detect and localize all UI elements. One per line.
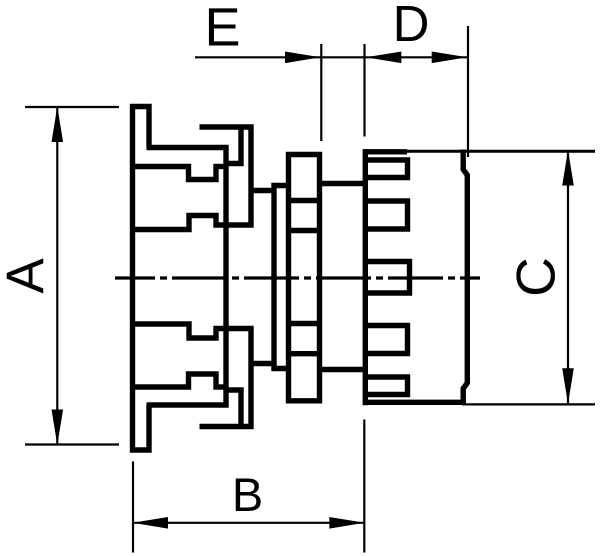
step upper S9 bbox=[214, 222, 254, 227]
tooth lower S14m bbox=[130, 384, 191, 389]
step lower S9m bbox=[214, 326, 254, 331]
dim A line bbox=[56, 107, 58, 445]
tooth upper S18 bbox=[214, 164, 229, 169]
dim C ext bottom bbox=[462, 403, 595, 405]
rib line 2 bbox=[289, 228, 320, 233]
tube right edge stepped outline bbox=[463, 150, 467, 405]
arrow A up bbox=[52, 107, 64, 143]
arrow D right bbox=[432, 52, 468, 64]
dim E ext bbox=[320, 44, 322, 141]
step upper S11 bbox=[187, 213, 219, 218]
slot2 top bbox=[365, 198, 410, 203]
rib left edge V2 bbox=[286, 152, 291, 403]
dim B ext right bbox=[363, 420, 365, 553]
slot1 top bbox=[365, 157, 410, 162]
center slot right bbox=[407, 259, 412, 296]
clamp shelf lower S3m bbox=[147, 402, 229, 407]
dim E line bbox=[195, 56, 321, 58]
tooth lower S17m bbox=[213, 372, 218, 390]
latch hook bottom S7m bbox=[200, 424, 254, 429]
slot1m bottom bbox=[365, 392, 410, 397]
step lower S10m bbox=[213, 326, 218, 341]
slot2 right bbox=[405, 199, 410, 232]
middle link lower R2m bbox=[272, 366, 292, 371]
svg-text:C: C bbox=[505, 257, 567, 297]
arrow D left bbox=[366, 52, 402, 64]
slot1m right bbox=[405, 375, 410, 398]
arrow A down bbox=[52, 410, 64, 446]
slot1 right bbox=[405, 158, 410, 181]
latch hook top S7 bbox=[200, 124, 254, 129]
dim C line bbox=[567, 151, 569, 404]
clamp back wall S4 bbox=[223, 145, 228, 408]
clamp bar right edge lower bbox=[146, 405, 151, 453]
clamp bar left edge bbox=[130, 104, 135, 453]
arrow C up bbox=[562, 150, 574, 186]
middle vertical V1 bbox=[271, 183, 276, 371]
clamp shelf upper S3 bbox=[147, 145, 229, 150]
latch hook outer S8m bbox=[248, 326, 253, 429]
rib right edge V3 bbox=[317, 152, 322, 403]
latch hook inner S6m bbox=[238, 388, 243, 427]
clamp bar bottom cap bbox=[130, 447, 152, 452]
step lower S13m bbox=[130, 321, 192, 326]
arrow B right bbox=[329, 517, 365, 529]
slot2 bottom bbox=[365, 226, 410, 231]
dim D ext bbox=[467, 26, 469, 157]
arrow B left bbox=[133, 517, 169, 529]
tube left edge bbox=[363, 149, 368, 405]
arrow C down bbox=[562, 368, 574, 404]
arrow E right bbox=[285, 52, 321, 64]
tooth lower S16m bbox=[186, 371, 219, 376]
step upper S12 bbox=[186, 213, 191, 232]
latch hook inner S5m bbox=[224, 387, 244, 392]
middle link upper R2 bbox=[272, 183, 292, 188]
slot2m top bbox=[365, 323, 410, 328]
latch hook outer S8 bbox=[248, 125, 253, 228]
tooth upper S16 bbox=[186, 177, 219, 182]
slot2m right bbox=[405, 323, 410, 356]
rib line 4 bbox=[289, 351, 320, 356]
clamp bar right edge upper bbox=[146, 104, 151, 148]
latch hook inner S5 bbox=[224, 161, 244, 166]
step upper S10 bbox=[213, 213, 218, 228]
step lower S12m bbox=[186, 322, 191, 341]
slot1 bottom bbox=[365, 175, 410, 180]
centerline bbox=[115, 276, 480, 279]
rib line 1 bbox=[289, 198, 320, 203]
center slot top bbox=[365, 259, 412, 264]
tooth lower S15m bbox=[186, 372, 191, 390]
svg-text:E: E bbox=[204, 0, 240, 58]
latch hook inner S6 bbox=[238, 127, 243, 166]
rib line 3 bbox=[289, 321, 320, 326]
tooth lower S18m bbox=[214, 384, 229, 389]
neck bottom bbox=[320, 367, 366, 372]
tube bottom edge bbox=[363, 400, 466, 405]
step lower S11m bbox=[187, 335, 219, 340]
clamp bar top cap bbox=[130, 104, 152, 109]
dim A ext bottom bbox=[25, 443, 119, 445]
middle link lower R1m bbox=[251, 361, 277, 366]
svg-text:A: A bbox=[0, 258, 55, 294]
svg-text:D: D bbox=[393, 0, 430, 52]
dim ED ext bbox=[363, 44, 365, 137]
rib top edge bbox=[286, 152, 322, 157]
dim A ext top bbox=[25, 106, 119, 108]
middle link upper R1 bbox=[251, 188, 277, 193]
dim C ext top bbox=[404, 150, 595, 153]
dim B line bbox=[133, 522, 364, 524]
dim E-D line bbox=[321, 56, 468, 58]
rib bottom edge bbox=[286, 398, 322, 403]
slot2m bottom bbox=[365, 351, 410, 356]
svg-text:B: B bbox=[232, 468, 263, 521]
step upper S13 bbox=[130, 227, 192, 232]
tube top edge bbox=[363, 149, 407, 154]
tooth upper S15 bbox=[186, 164, 191, 182]
center slot bottom bbox=[365, 290, 412, 295]
slot1m top bbox=[365, 374, 410, 379]
tooth upper S14 bbox=[130, 164, 191, 169]
neck top bbox=[320, 181, 366, 186]
dim B ext left bbox=[132, 462, 134, 553]
tooth upper S17 bbox=[213, 164, 218, 182]
